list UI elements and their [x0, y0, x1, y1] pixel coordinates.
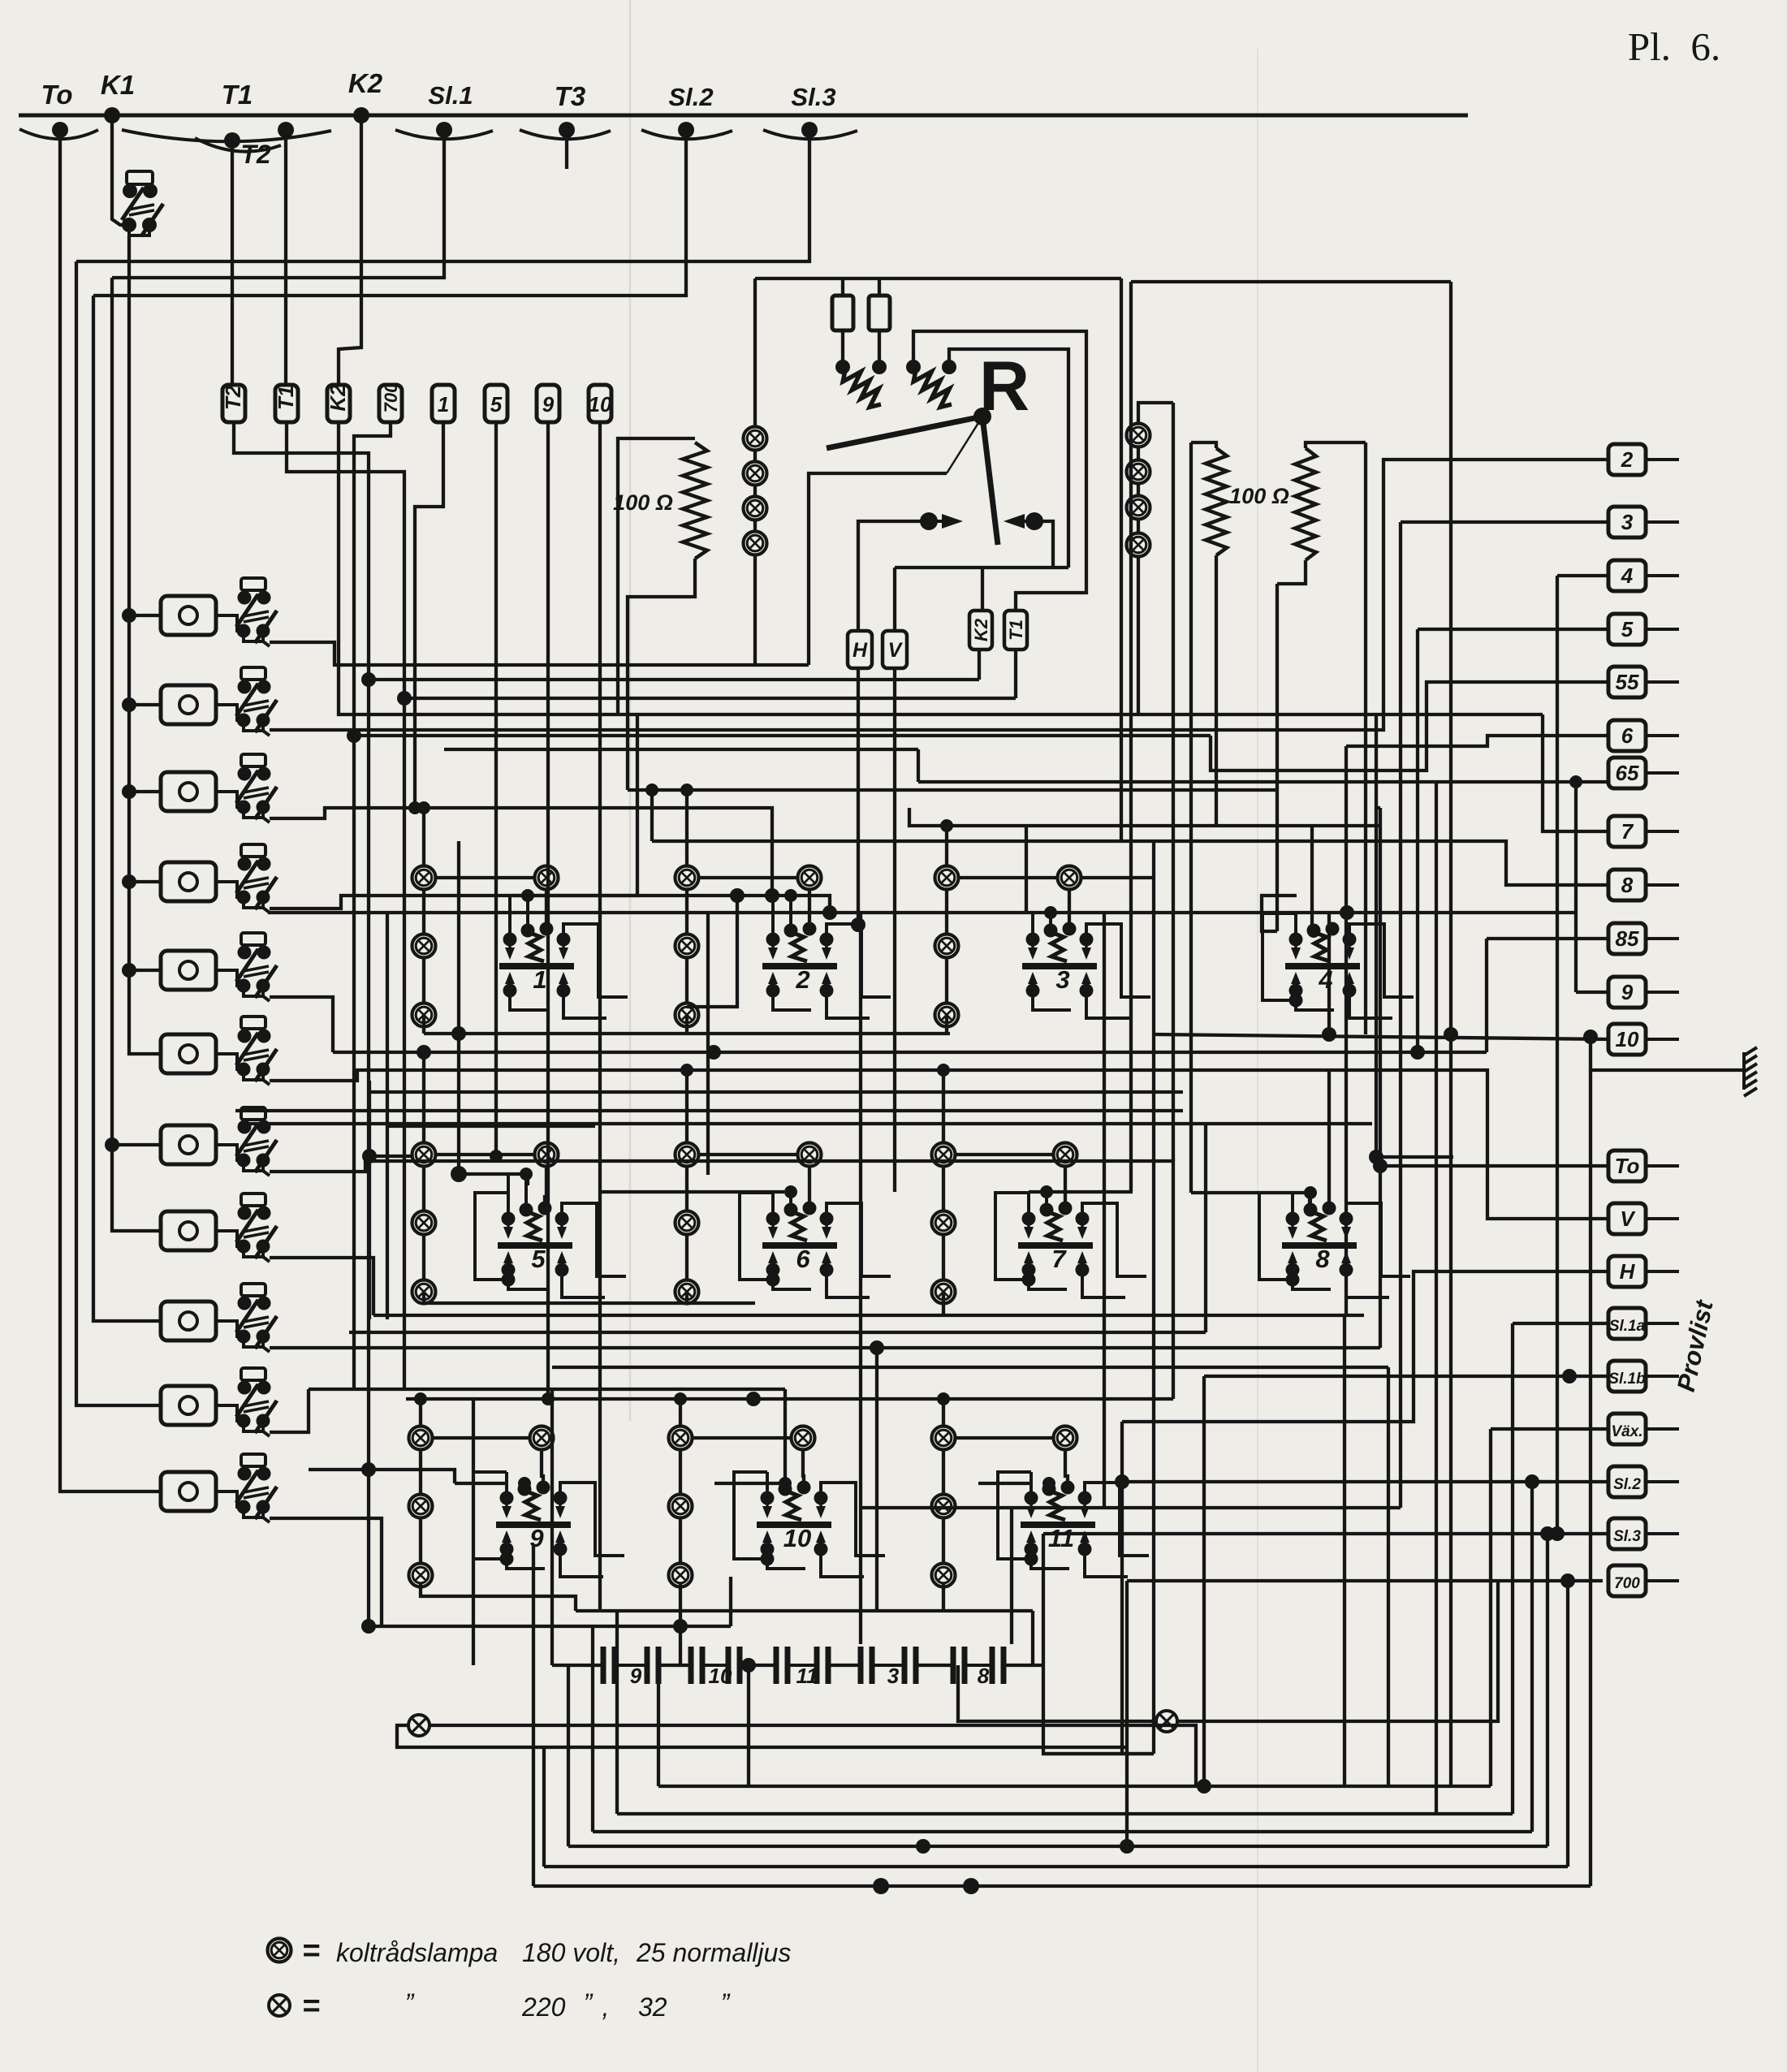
wire bus y343: [755, 277, 1121, 280]
jack J3: [161, 754, 277, 822]
svg-text:K2: K2: [971, 618, 991, 641]
svg-text:Sl.1: Sl.1: [428, 81, 473, 110]
node T3: [559, 122, 575, 138]
junction C11 TL: [937, 1392, 950, 1405]
svg-text:”: ”: [721, 1988, 731, 2018]
lamp C11 M: [932, 1495, 956, 1518]
wire g8 coil riser: [1327, 1070, 1331, 1210]
svg-text:3: 3: [1055, 965, 1069, 994]
wire x1382 down: [1120, 1482, 1124, 1754]
wire C9 TR stem: [542, 1449, 543, 1484]
wire x967 drop: [783, 1389, 787, 1483]
wire cap link 3-8: [916, 1664, 953, 1667]
wire band 1857e: [861, 1506, 1401, 1509]
wire 65 lead: [918, 780, 1608, 783]
jack J5: [161, 933, 277, 1001]
node T2: [224, 132, 240, 149]
wire lampcolL down: [753, 555, 757, 665]
wire x1697 down: [1387, 1367, 1390, 1786]
wire vert 872: [706, 913, 710, 1175]
wire g4 feed link: [1262, 896, 1297, 931]
wire Sl3 lead: [1043, 1532, 1608, 1535]
junction box5-1424: [490, 1150, 503, 1163]
svg-text:To: To: [1615, 1154, 1640, 1178]
wire jack8 run: [270, 1258, 373, 1315]
wire vert 565: [457, 841, 460, 1034]
terminal Sl.1a: [1608, 1308, 1679, 1339]
junction 1382-1825: [1115, 1474, 1129, 1489]
svg-text:220: 220: [521, 1992, 566, 2022]
relay group 6: [740, 1185, 891, 1297]
lamp column-left L3: [744, 497, 767, 520]
wire resA down: [1215, 555, 1218, 826]
wire Rc route: [913, 331, 1086, 611]
wire g8 feed line: [1191, 1193, 1310, 1207]
ground symbol: [1744, 1047, 1757, 1096]
junction x455: [362, 1149, 377, 1163]
lamp column-right L1: [1127, 424, 1150, 447]
wire cap link 11-3: [828, 1664, 861, 1667]
wire C9 col2: [419, 1517, 422, 1564]
lamp A1 TL: [412, 866, 436, 890]
wire band 1017: [909, 808, 1380, 826]
legend lamp 180: [268, 1939, 291, 1962]
node Sl.2: [678, 122, 694, 138]
relay group 4: [1263, 913, 1414, 1018]
wire A1 TR stem: [545, 889, 548, 926]
svg-text:85: 85: [1616, 926, 1639, 951]
svg-text:=: =: [302, 1989, 320, 2023]
wire rowA collector1: [424, 1032, 950, 1035]
wire B5 TL up: [422, 1052, 425, 1143]
junction 2274-1137: [916, 1839, 930, 1854]
wire Sl2 lead: [1532, 1480, 1608, 1483]
junction T2-837: [361, 672, 376, 687]
wire band 1384: [244, 1122, 1372, 1125]
wire A1 col1: [422, 889, 425, 935]
svg-text:T1: T1: [274, 386, 298, 410]
junction j9-1080: [870, 1340, 884, 1355]
svg-text:1: 1: [533, 965, 546, 994]
jack J1: [161, 578, 277, 646]
wire switch down: [127, 235, 131, 242]
svg-text:11: 11: [1048, 1524, 1074, 1552]
contact left dot: [920, 512, 938, 530]
junction Ra: [835, 360, 850, 374]
svg-text:5: 5: [531, 1245, 546, 1273]
wire contact right: [1034, 521, 1053, 568]
lamp column-right L4: [1127, 533, 1150, 557]
top bus: [19, 114, 1468, 118]
relay group 8: [1259, 1186, 1410, 1297]
svg-text:5: 5: [1621, 617, 1634, 641]
svg-text:55: 55: [1616, 670, 1639, 694]
wire B7 TR stem: [1064, 1166, 1067, 1205]
svg-text:Sl.3: Sl.3: [1613, 1528, 1641, 1545]
wire B g7 drop: [942, 1292, 945, 1315]
lamp C10 TL: [669, 1427, 693, 1450]
wire A3 col2: [945, 957, 948, 1004]
junction A2 TL: [680, 783, 693, 796]
wire cap link 9-10: [658, 1664, 691, 1667]
relay box K2: [326, 384, 350, 422]
wire term4 lead: [1557, 574, 1608, 577]
wire wiper out: [809, 473, 947, 665]
svg-text:700: 700: [1614, 1575, 1640, 1592]
wire band 1036 to term8: [650, 794, 654, 841]
wire B7 col1: [942, 1166, 945, 1211]
wire To lead: [1380, 1164, 1608, 1168]
svg-text:V: V: [888, 639, 904, 662]
junction j4-951: [765, 888, 779, 903]
svg-text:Sl.1b: Sl.1b: [1608, 1371, 1646, 1388]
svg-text:H: H: [1620, 1259, 1636, 1284]
wire 700 lead: [1127, 1579, 1603, 1582]
wire band 973: [628, 788, 1277, 792]
relay group 10: [734, 1472, 885, 1577]
wire A2 col1: [685, 889, 688, 935]
wire C11 TL up: [942, 1399, 945, 1427]
wire A2 col2: [685, 957, 688, 1004]
svg-text:T2: T2: [240, 140, 271, 169]
terminal 6: [1608, 720, 1679, 751]
wire vert 583: [472, 1399, 475, 1665]
wire bottom 2234: [617, 1812, 1513, 1815]
wire Ra top: [841, 278, 844, 296]
svg-text:K1: K1: [101, 70, 135, 100]
lamp A2 TL: [676, 866, 699, 890]
wire g6 feed: [601, 1190, 784, 1194]
node To: [52, 122, 68, 138]
wire A1 TL up: [422, 808, 425, 866]
terminal Sl.3: [1608, 1518, 1679, 1549]
junction 1124 b: [1340, 905, 1354, 920]
terminal 85: [1608, 923, 1679, 954]
node Sl.3: [801, 122, 818, 138]
wire res bottom: [628, 559, 695, 790]
lamp C10 M: [669, 1495, 693, 1518]
wire B6 col2: [685, 1234, 688, 1280]
lamp A3 TL: [935, 866, 959, 890]
wire vert 1246: [1010, 1508, 1013, 1644]
wire 700 route east: [354, 734, 1211, 737]
terminal 7: [1608, 816, 1679, 847]
wire x922 down: [747, 1665, 750, 1786]
wire T2 route east: [369, 678, 979, 681]
wire rail x138: [112, 278, 161, 1231]
wire g7 feed: [1029, 1190, 1133, 1194]
wire g11 feed: [978, 1482, 1031, 1485]
wire bottom 2274: [568, 1845, 1547, 1848]
junction B7 TL: [937, 1064, 950, 1077]
coil R left: [843, 370, 881, 407]
svg-text:4: 4: [1621, 563, 1634, 588]
wire x670 up: [542, 1747, 546, 1867]
svg-text:65: 65: [1616, 761, 1639, 785]
wire C11 TL-TR: [955, 1436, 1054, 1440]
wire band 923: [444, 748, 918, 751]
jack J10: [161, 1368, 277, 1436]
svg-text:,: ,: [602, 1992, 610, 2022]
wire K2p down: [978, 650, 981, 680]
svg-text:2: 2: [795, 965, 809, 994]
svg-text:H: H: [852, 639, 868, 662]
relay group 11: [998, 1472, 1149, 1577]
svg-text:6: 6: [796, 1245, 810, 1273]
wire jack4 left stub: [129, 880, 161, 883]
terminal 4: [1608, 560, 1679, 591]
junction rail jack4: [122, 874, 136, 889]
wire bottom 2299: [544, 1865, 1568, 1868]
wire resB top: [1306, 442, 1366, 448]
wire C10 TL-TR: [692, 1436, 792, 1440]
junction 1695-1425: [1369, 1150, 1383, 1164]
junction A3 TL: [940, 819, 953, 832]
wire B g5 drop: [422, 1292, 425, 1303]
lamp B7 M: [932, 1211, 956, 1235]
wire x1931 riser: [1566, 1581, 1569, 1867]
wire x1787 down: [1449, 282, 1452, 1786]
wire Sl.3 to left rail: [76, 130, 809, 261]
capacitor C8: [951, 1647, 1007, 1688]
junction To lead: [1373, 1159, 1388, 1173]
wire jack9 run: [270, 1346, 1380, 1349]
svg-text:7: 7: [1621, 819, 1634, 844]
terminal 700: [1608, 1565, 1679, 1596]
wire lampcolR top: [1138, 403, 1173, 424]
lamp C11 TR: [1054, 1427, 1077, 1450]
wire Rd route: [949, 349, 1068, 568]
wire B6 TL up: [685, 1070, 688, 1143]
svg-text:2: 2: [1621, 447, 1634, 472]
wire term5 lead: [1418, 628, 1608, 631]
svg-text:3: 3: [1621, 510, 1634, 534]
junction Sl3-1918: [1550, 1526, 1565, 1541]
wire term3 lead: [1401, 520, 1608, 524]
lamp column-left L2: [744, 462, 767, 486]
junction 1941-963: [1569, 775, 1582, 788]
wire vert x565b: [457, 1034, 460, 1174]
wire x1906 riser: [1546, 1534, 1549, 1846]
wire jack3 run: [270, 808, 772, 896]
lamp A1 M: [412, 935, 436, 958]
lamp B7 B: [932, 1280, 956, 1304]
wire g10 feed: [714, 1482, 785, 1485]
wire band 1124: [268, 911, 1575, 914]
wire B6 TL-TR: [698, 1153, 798, 1156]
relay group 5: [475, 1168, 626, 1297]
jack J7: [161, 1107, 277, 1176]
wire rail x116: [93, 296, 161, 1321]
resistor box Rb: [869, 296, 890, 330]
junction T1-860: [397, 691, 412, 706]
contact right arrow: [1004, 514, 1025, 529]
node Sl.1: [436, 122, 452, 138]
svg-text:9: 9: [542, 392, 555, 417]
junction 10 a: [1322, 1027, 1336, 1042]
wire x1682 down: [1364, 442, 1367, 1034]
wire y1425 ext: [1376, 1155, 1453, 1159]
lamp 220v left: [408, 1715, 429, 1736]
wire x908 down: [687, 896, 737, 1007]
terminal 8: [1608, 870, 1679, 900]
wire rowC 1810: [309, 1470, 455, 1483]
wire x1863 down: [1511, 1323, 1514, 1814]
wire x1637 up: [1327, 913, 1331, 1034]
wire C10 col2: [679, 1517, 682, 1564]
wire jack1 left stub: [129, 614, 161, 617]
lamp B6 M: [676, 1211, 699, 1235]
wiper arm 2: [982, 417, 998, 545]
jack J6: [161, 1017, 277, 1085]
wire Rb bottom: [878, 330, 881, 367]
wire band 1368: [235, 1109, 1183, 1112]
wire rowA collector2: [333, 1051, 1487, 1054]
relay group 7: [995, 1185, 1146, 1297]
wire T1 route east: [404, 697, 1016, 700]
paper crease right: [1257, 49, 1258, 2072]
wire g9 feed: [455, 1482, 507, 1485]
junction rowC 928: [746, 1392, 761, 1406]
wire vert x455: [368, 1081, 371, 1319]
wire A3 TR stem: [1068, 889, 1071, 926]
svg-text:9: 9: [630, 1664, 642, 1688]
wire term10 lead: [1154, 1034, 1608, 1039]
wire B7 TL-TR: [955, 1153, 1054, 1156]
wire termH lead: [1122, 1271, 1608, 1422]
wire T1p down: [1014, 650, 1017, 698]
contact left arrow: [942, 514, 963, 529]
svg-text:180 volt,: 180 volt,: [522, 1938, 620, 1967]
wire g5 feed: [459, 1174, 528, 1185]
terminal 65: [1608, 758, 1679, 788]
hook Sl.2: [641, 130, 732, 139]
wire x1941 up: [1574, 782, 1578, 992]
wire box9 down: [546, 422, 550, 1399]
hook T1: [122, 130, 331, 141]
wire T2 route: [234, 422, 369, 1626]
wire x1573 down g4feed: [1276, 584, 1279, 931]
wire x1831 down: [1485, 939, 1488, 1052]
terminal H: [1608, 1256, 1679, 1287]
wire lampcolR down: [1137, 556, 1140, 714]
wire C10 TR stem: [803, 1449, 804, 1484]
relay group 3: [1022, 906, 1150, 1018]
wire x1264 drop: [1025, 826, 1028, 913]
wire A2 TR stem: [808, 889, 811, 926]
wire band 1036: [652, 841, 1608, 885]
junction rowA coll: [451, 1026, 466, 1041]
wire A2 TL up: [685, 790, 688, 866]
svg-text:100 Ω: 100 Ω: [1229, 484, 1289, 508]
wire resB down: [1277, 560, 1306, 584]
svg-text:T3: T3: [555, 81, 586, 111]
wire B5 col2: [422, 1234, 425, 1280]
lamp C10 TR: [792, 1427, 815, 1450]
wire contact left: [858, 521, 929, 631]
pivot R: [973, 408, 991, 425]
wire g5 frame top: [387, 1124, 595, 1128]
switch K1: [122, 171, 163, 236]
relay box 9: [537, 385, 559, 422]
wire box1 route: [415, 422, 443, 808]
wire jack5 left stub: [129, 969, 161, 972]
wire x1483 down: [1202, 1376, 1206, 1786]
wire lampcolL links2: [753, 485, 757, 497]
wire jack1 run: [270, 642, 809, 665]
wire g4 coil riser: [1310, 826, 1314, 926]
junction Rc: [906, 360, 921, 374]
relay box T2: [221, 385, 245, 422]
wire x1131 to 65: [917, 749, 920, 782]
wire B5 col1: [422, 1166, 425, 1211]
wire rowC coll 2003: [369, 1625, 731, 1628]
wire B5 TR stem: [545, 1166, 546, 1205]
junction bottom b: [963, 1878, 979, 1894]
wire band 880 to term7: [1543, 714, 1608, 831]
lamp 220v right: [1156, 1711, 1177, 1732]
wire lamp220R right: [1178, 1581, 1498, 1721]
junction rail jack5: [122, 963, 136, 978]
lamp C10 B: [669, 1564, 693, 1587]
terminal 55: [1608, 667, 1679, 697]
wire C g11 drop: [942, 1584, 945, 1611]
lamp A1 B: [412, 1004, 436, 1027]
relay group 9: [473, 1472, 624, 1577]
junction A1 TL: [417, 801, 430, 814]
junction 1296-879: [706, 1045, 721, 1060]
junction B6 TL: [680, 1064, 693, 1077]
wire g5 lamp link ext: [369, 1155, 412, 1158]
wire cap link 10-11: [740, 1664, 776, 1667]
svg-text:11: 11: [796, 1664, 818, 1688]
wire x1700 To: [1376, 714, 1380, 808]
svg-text:Sl.3: Sl.3: [791, 83, 835, 111]
wire g3TR ext: [1081, 876, 1154, 879]
contact right dot: [1025, 512, 1043, 530]
lamp A3 B: [935, 1004, 959, 1027]
relay box V: [883, 631, 907, 668]
wire jack7 run: [270, 1161, 1173, 1399]
lamp B5 TL: [412, 1143, 436, 1167]
wire jack2 left stub: [129, 703, 161, 706]
wire x760 up: [615, 1611, 619, 1814]
lamp A2 M: [676, 935, 699, 958]
wire x1887 down: [1530, 1482, 1534, 1832]
wire T2 hook down: [231, 140, 234, 385]
wire C10 TL up: [679, 1399, 682, 1427]
node K2: [353, 107, 369, 123]
wire x1746 down: [1416, 629, 1419, 1052]
wire rowC line2: [309, 1388, 785, 1391]
wire A1 col2: [422, 957, 425, 1004]
wire x1388 down: [1125, 1581, 1129, 1846]
hook Sl.1: [395, 130, 493, 139]
terminal V: [1608, 1203, 1679, 1234]
wire x1393 down: [1129, 282, 1133, 1192]
lamp C9 M: [409, 1495, 433, 1518]
wire A3 col1: [945, 889, 948, 935]
junction box1-995: [408, 801, 421, 814]
wire C g10 drop: [679, 1584, 682, 1665]
wire x700b up: [567, 1665, 570, 1846]
wire jack4 run: [270, 896, 830, 913]
junction j4-1124: [822, 905, 837, 920]
wire lamp220R left: [958, 1665, 1155, 1721]
stub T3: [565, 130, 568, 169]
wire A2 TL-TR: [698, 876, 798, 879]
wire y699 link: [895, 566, 1068, 569]
